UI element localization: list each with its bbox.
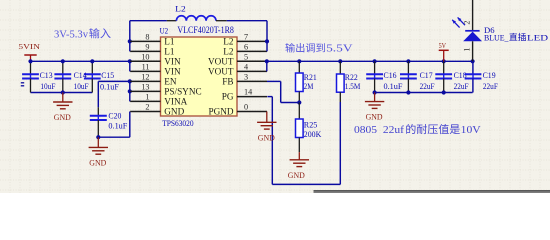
svg-text:L1: L1 <box>164 47 175 57</box>
svg-text:VOUT: VOUT <box>208 57 234 67</box>
svg-text:3: 3 <box>244 72 248 81</box>
svg-text:200K: 200K <box>304 130 322 139</box>
svg-text:1: 1 <box>462 48 471 52</box>
svg-text:VIN: VIN <box>164 57 181 67</box>
svg-text:LED: LED <box>527 33 548 42</box>
svg-text:GND: GND <box>89 158 106 167</box>
svg-text:4: 4 <box>244 62 248 71</box>
svg-text:BLUE_: BLUE_ <box>484 33 509 42</box>
svg-text:14: 14 <box>244 88 252 97</box>
svg-text:VIN: VIN <box>164 67 181 77</box>
svg-text:13: 13 <box>141 83 149 92</box>
svg-text:C14: C14 <box>74 71 87 80</box>
svg-text:GND: GND <box>164 107 184 117</box>
svg-text:VINA: VINA <box>164 97 187 107</box>
svg-text:22uF: 22uF <box>483 82 498 91</box>
svg-text:10: 10 <box>141 53 149 62</box>
svg-text:12: 12 <box>141 73 149 82</box>
svg-text:0.1uF: 0.1uF <box>100 83 120 92</box>
svg-text:7: 7 <box>244 32 248 41</box>
svg-text:0.1uF: 0.1uF <box>108 122 128 131</box>
svg-text:0.1uF: 0.1uF <box>384 82 404 91</box>
svg-text:L2: L2 <box>223 47 234 57</box>
svg-text:2M: 2M <box>304 82 314 91</box>
svg-text:VOUT: VOUT <box>208 67 234 77</box>
svg-text:5: 5 <box>244 52 248 61</box>
svg-text:R25: R25 <box>304 120 318 129</box>
svg-text:C19: C19 <box>483 71 496 80</box>
svg-text:2: 2 <box>145 103 149 112</box>
svg-text:EN: EN <box>164 77 177 87</box>
svg-text:FB: FB <box>222 77 233 87</box>
svg-text:VLCF4020T-1R8: VLCF4020T-1R8 <box>177 25 234 35</box>
svg-text:5VIN: 5VIN <box>18 42 40 51</box>
svg-text:22uF: 22uF <box>420 82 435 91</box>
svg-text:11: 11 <box>142 63 150 72</box>
svg-text:C17: C17 <box>420 71 433 80</box>
svg-text:L1: L1 <box>164 37 175 47</box>
svg-text:3V-5.3v: 3V-5.3v <box>54 28 88 40</box>
svg-text:5.5V: 5.5V <box>326 44 354 55</box>
svg-text:8: 8 <box>145 33 149 42</box>
svg-text:TPS63020: TPS63020 <box>162 118 193 128</box>
svg-text:0805 22uf: 0805 22uf <box>354 124 404 136</box>
svg-text:PGND: PGND <box>208 107 233 117</box>
svg-text:5V: 5V <box>439 41 447 50</box>
svg-text:6: 6 <box>244 42 248 51</box>
svg-text:R22: R22 <box>345 73 358 82</box>
svg-text:C15: C15 <box>101 71 114 80</box>
svg-text:GND: GND <box>54 113 71 122</box>
svg-text:C16: C16 <box>384 71 397 80</box>
svg-text:GND: GND <box>366 113 383 122</box>
svg-text:L2: L2 <box>223 37 234 47</box>
svg-text:10uF: 10uF <box>74 82 89 91</box>
svg-text:C13: C13 <box>40 71 53 80</box>
svg-text:10uF: 10uF <box>40 82 55 91</box>
svg-text:2: 2 <box>462 21 471 25</box>
svg-text:1: 1 <box>145 93 149 102</box>
svg-text:C20: C20 <box>108 112 121 121</box>
svg-text:1.5M: 1.5M <box>345 82 361 91</box>
svg-text:L2: L2 <box>175 4 186 13</box>
svg-text:GND: GND <box>258 133 275 142</box>
svg-text:GND: GND <box>288 171 305 180</box>
svg-text:U2: U2 <box>160 26 169 36</box>
svg-text:PS/SYNC: PS/SYNC <box>164 87 201 97</box>
svg-text:R21: R21 <box>304 73 317 82</box>
svg-text:22uF: 22uF <box>454 82 469 91</box>
svg-text:10V: 10V <box>461 124 481 136</box>
svg-text:0: 0 <box>244 103 248 112</box>
svg-text:PG: PG <box>222 91 234 101</box>
svg-text:9: 9 <box>145 43 149 52</box>
